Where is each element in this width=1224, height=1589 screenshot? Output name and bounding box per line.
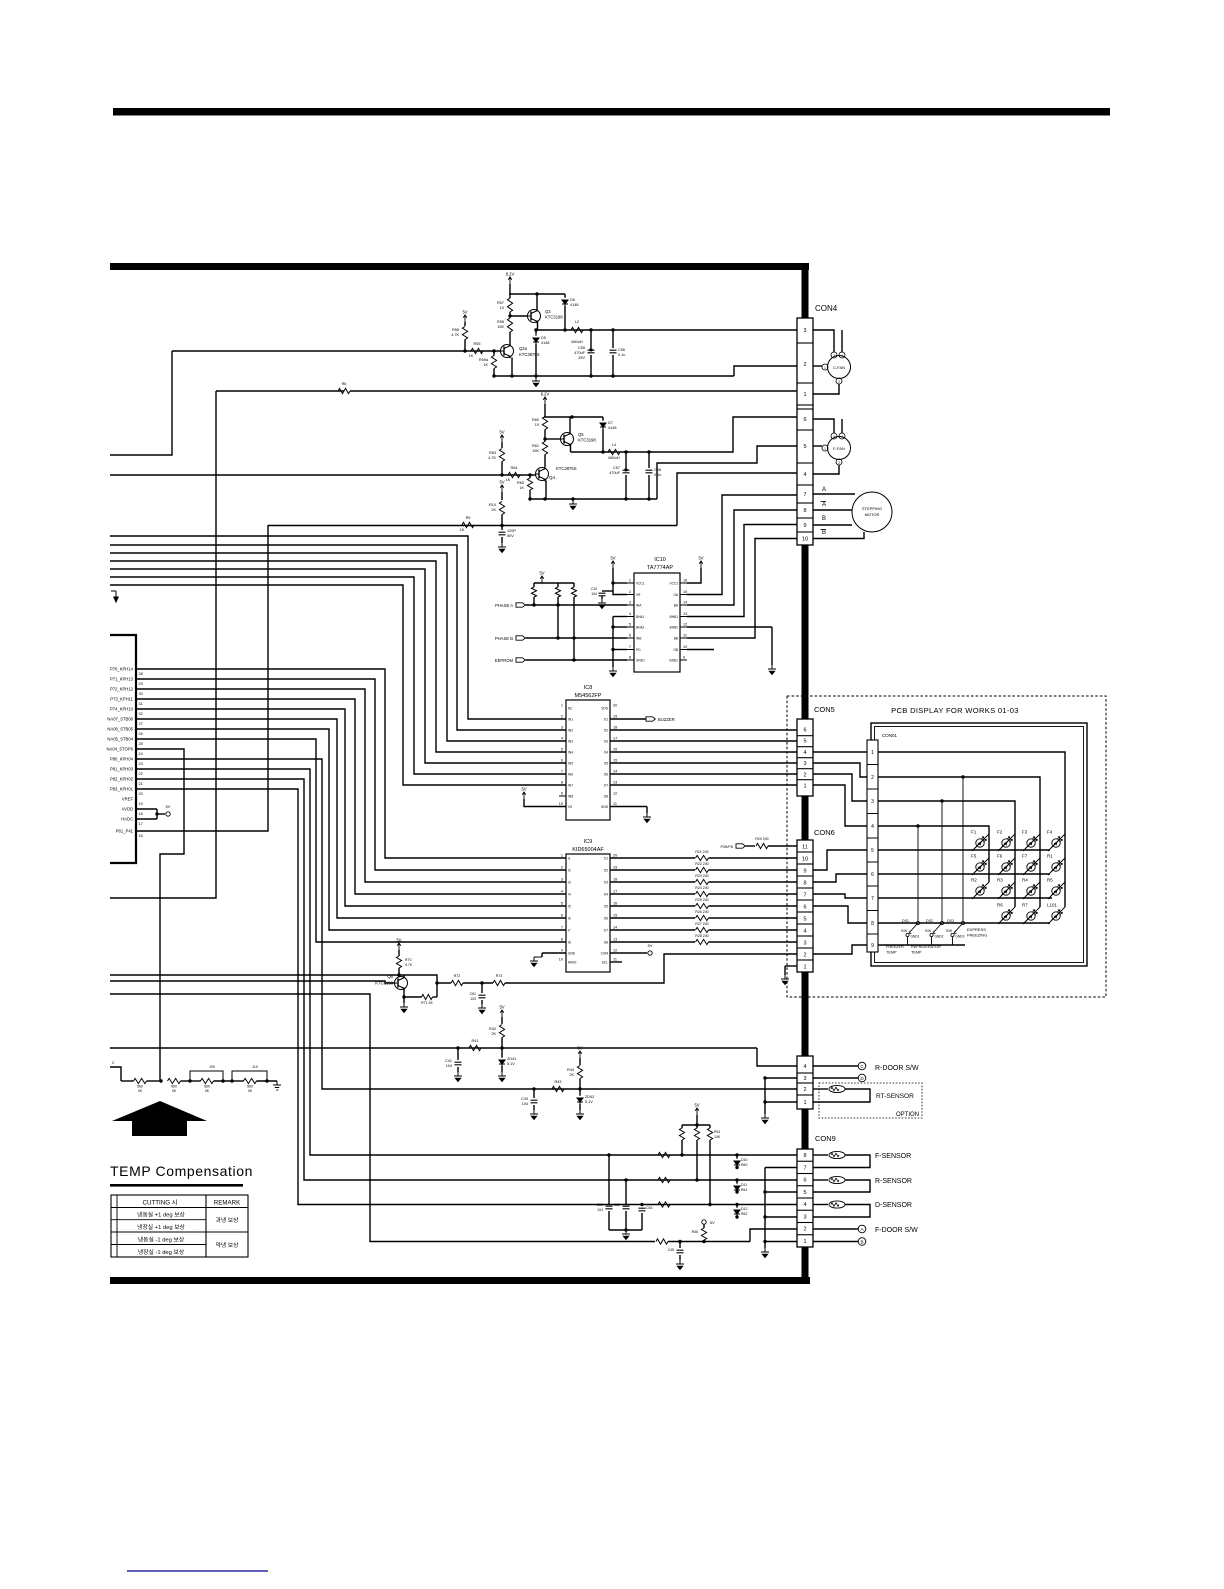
svg-text:O7: O7 [604,929,608,933]
power 5V IC10 right [699,561,703,568]
svg-text:C61: C61 [470,992,476,996]
resistor R71 [404,996,422,998]
resistor R43 [552,1086,564,1091]
svg-text:4: 4 [841,354,843,358]
svg-text:IN2: IN2 [568,729,573,733]
wire rail to CON4 pin6 [658,417,797,452]
svg-text:23: 23 [139,762,143,766]
wire MCU P81_P41 up to enable line [136,525,268,831]
transistor Q2a [501,345,514,358]
svg-text:2K: 2K [491,508,496,512]
svg-text:1: 1 [629,579,631,583]
node F-DOOR S/W A [858,1225,866,1233]
svg-text:F2: F2 [997,830,1003,835]
svg-text:7: 7 [803,1165,806,1171]
wire IC10 BHB to CON4 pin9 [687,525,797,617]
svg-text:18: 18 [613,878,617,882]
svg-text:9: 9 [871,943,874,949]
svg-text:6: 6 [803,728,806,734]
svg-text:2: 2 [803,362,806,368]
svg-text:10: 10 [802,857,808,863]
svg-text:F5: F5 [971,854,977,859]
diode ZD42 [579,1089,581,1095]
svg-text:NC: NC [568,707,573,711]
svg-text:R9: R9 [466,516,471,520]
svg-text:0K: 0K [172,1089,177,1093]
svg-text:3: 3 [629,601,631,605]
wire EEPROM to IC10 pin8 [526,659,628,661]
svg-text:GND1: GND1 [911,935,920,939]
wire Q4 collector [544,466,546,469]
svg-text:CON4: CON4 [815,304,838,313]
svg-text:C43: C43 [521,1097,528,1101]
svg-text:L2: L2 [575,320,579,324]
wire 8.2V rail [544,404,546,417]
wire IC8 out6 to CON5 pin2 [610,773,797,775]
capacitor C43 [533,1089,535,1098]
svg-text:4: 4 [803,472,806,478]
svg-text:15K: 15K [532,449,539,453]
svg-text:C55: C55 [578,346,585,350]
svg-text:KTC3875S: KTC3875S [519,352,540,357]
svg-text:4: 4 [561,890,563,894]
svg-text:5: 5 [803,739,806,745]
svg-text:C41: C41 [445,1059,452,1063]
svg-text:7: 7 [803,893,806,899]
wire pin1 to B [813,1241,858,1243]
wire q2a net from x216 [216,390,344,392]
wire D-sensor bracket [813,1205,870,1218]
capacitor C58 [648,452,650,468]
wire IC9 out2 to CON6 [610,869,695,871]
svg-text:104: 104 [446,1064,452,1068]
svg-text:냉동실 -1 deg 보상: 냉동실 -1 deg 보상 [138,1236,185,1244]
svg-text:KTC3198: KTC3198 [578,438,596,443]
svg-text:11: 11 [613,802,617,806]
wire F-sensor feed resistor [658,1152,670,1157]
wire PHASE A to IC10 pin3 [526,604,628,606]
svg-text:냉장실 +1 deg 보상: 냉장실 +1 deg 보상 [137,1223,185,1231]
svg-text:4: 4 [803,750,806,756]
svg-text:P83_KPH01: P83_KPH01 [110,787,134,792]
svg-text:0.1u: 0.1u [618,353,625,357]
svg-text:14: 14 [683,601,687,605]
svg-text:103: 103 [470,997,476,1001]
svg-text:C51: C51 [597,1203,603,1207]
wire sense line to CON4 pin4 [677,473,797,526]
ground IC10 left [609,667,617,677]
svg-text:BHA2: BHA2 [636,626,645,630]
diode ZD41 [501,1048,503,1057]
svg-text:1: 1 [803,1100,806,1106]
wire CON5 pin2 to CON01 pin3 [813,774,867,801]
thermistor D-SENSOR [813,1204,828,1206]
svg-text:12: 12 [683,623,687,627]
wire 8.2V to rail [509,284,511,294]
svg-text:NA06_STB05: NA06_STB05 [107,727,133,732]
transistor Q3 [528,310,541,323]
svg-text:16: 16 [613,902,617,906]
svg-text:3: 3 [803,941,806,947]
svg-text:4: 4 [803,929,806,935]
svg-text:14: 14 [613,926,617,930]
svg-text:C56: C56 [618,348,625,352]
svg-text:12: 12 [613,792,617,796]
svg-text:16: 16 [139,834,143,838]
thermistor RT [813,1088,828,1090]
power 8.2V [508,277,512,284]
resistor R61 [542,442,547,455]
wire base input from left edge [110,981,395,983]
svg-text:AVDD: AVDD [122,807,133,812]
wire MCU P83 to D-sensor line [136,789,797,1205]
wire CON01 pin3 feed column [878,801,1015,907]
svg-text:1K: 1K [519,486,524,490]
svg-text:1K: 1K [506,478,511,482]
svg-text:NA05_STB04: NA05_STB04 [107,737,133,742]
svg-text:J09: J09 [209,1065,215,1069]
svg-text:R63: R63 [489,451,496,455]
wire CON4 pin6 to F-FAN [813,419,834,433]
ground IC9 [530,957,538,967]
resistor R60 [542,417,547,430]
wire CON01 row8 [878,922,1050,924]
svg-text:Q2a: Q2a [519,346,528,351]
wire pullup rail [696,1115,698,1125]
svg-text:과냉 보상: 과냉 보상 [216,1216,240,1224]
connector CON9 [797,1149,813,1247]
svg-text:TEMP Compensation: TEMP Compensation [110,1163,253,1179]
svg-text:5V: 5V [694,1103,699,1108]
wire ground rail to CON4 pin2 [734,366,797,376]
svg-text:냉장실 -1 deg 보상: 냉장실 -1 deg 보상 [138,1248,185,1256]
wire ground rail to CON4 pin5 [657,446,797,499]
motor STEPPING MOTOR [852,492,892,532]
svg-text:P71_KPH13: P71_KPH13 [110,677,134,682]
wire IC9 out7 to CON6 [610,929,695,931]
diode D10 [736,1155,738,1158]
svg-text:27: 27 [139,722,143,726]
svg-text:3: 3 [871,799,874,805]
ground CON9 [761,1248,769,1258]
svg-text:VCC2: VCC2 [669,582,678,586]
svg-text:8.2V: 8.2V [541,392,550,397]
svg-text:P26/P6: P26/P6 [721,845,733,849]
svg-text:R61: R61 [741,1188,747,1192]
svg-text:F4: F4 [1047,830,1053,835]
svg-text:R61: R61 [532,444,539,448]
svg-text:PHASE B: PHASE B [495,636,513,641]
wire MCU to IC9 line 7 [136,729,566,930]
svg-text:5V: 5V [499,1005,504,1010]
svg-text:5V: 5V [539,571,544,576]
capacitor C56 [612,330,614,348]
motor F-FAN [828,437,851,460]
wire R-DOOR line from left [110,1047,757,1049]
svg-text:D6: D6 [570,298,575,302]
resistor R65 [527,478,532,490]
wire Q5 collector [569,417,571,434]
node F-DOOR S/W B [858,1238,866,1246]
wire CON4 pin8 to stepping motor [813,509,852,511]
svg-text:I4: I4 [568,893,571,897]
resistor R42 pullup [500,1010,504,1017]
wire R-sensor bracket [813,1180,870,1192]
op-amp U IC9 body [566,854,610,972]
svg-text:R55: R55 [474,342,481,346]
LED F1 [972,834,989,851]
svg-text:R43: R43 [555,1080,562,1084]
svg-text:5V: 5V [166,805,171,809]
wire 5V to IC8 pin10 [524,799,566,807]
resistor chain R1 [134,1078,147,1083]
svg-text:1: 1 [803,965,806,971]
svg-text:28: 28 [139,672,143,676]
svg-text:TEMP: TEMP [886,951,897,955]
svg-text:A: A [822,502,826,508]
wire base input line [172,350,501,352]
svg-text:8: 8 [629,656,631,660]
svg-text:104: 104 [591,592,597,596]
svg-text:3: 3 [561,726,563,730]
wire F-sensor bracket [813,1155,870,1168]
wire cap ground rail [609,1229,642,1231]
svg-text:5: 5 [871,848,874,854]
svg-text:14: 14 [613,770,617,774]
resistor R6 [338,388,350,393]
svg-text:8: 8 [561,781,563,785]
top page rule [113,108,1110,116]
wire MCU to IC9 line 3 [136,689,566,882]
wire keypad bus line 4 [110,561,566,752]
svg-text:R62: R62 [741,1212,747,1216]
svg-text:B: B [860,1239,863,1244]
svg-text:IC9: IC9 [584,839,593,845]
LED F6 [998,858,1015,875]
power 5V Q6 [397,943,401,950]
svg-text:CON6: CON6 [814,828,835,837]
wire PHASE B to IC10 pin6 [526,637,628,639]
wire CON4 pin2 to C-FAN [813,365,822,367]
diode D13c [571,587,576,597]
svg-text:20: 20 [613,854,617,858]
LED F7 [1023,858,1040,875]
arrow marker [112,1101,207,1136]
diode D6 [564,294,566,297]
svg-text:1: 1 [561,854,563,858]
capacitor C57 [625,452,627,468]
wire conn pin3 to ground chain [765,1077,797,1079]
svg-text:R60: R60 [532,418,539,422]
svg-text:MOTOR: MOTOR [865,512,880,517]
svg-text:4: 4 [803,1064,806,1070]
capacitor C51 [608,1155,610,1204]
wire vertical x216 [110,391,216,898]
wire CON01 pin2 feed column [878,777,1040,907]
svg-text:7: 7 [561,770,563,774]
svg-text:R56: R56 [452,328,459,332]
svg-text:R10: R10 [489,503,496,507]
wire IC8 out3 to CON5 pin5 [610,740,797,742]
wire Q2a collector [509,344,511,347]
resistor R41 [469,1045,481,1050]
wire Q4 emitter [545,481,547,500]
svg-text:5V: 5V [462,310,467,315]
wire Q5 base [545,438,561,440]
LED R5 [1048,882,1065,899]
svg-text:2: 2 [803,1087,806,1093]
svg-text:S/W: S/W [925,929,931,933]
wire pin4 to C [813,1065,858,1067]
wire keypad bus line 6 [110,577,566,774]
wire collector input from left edge [110,974,399,976]
svg-text:17: 17 [613,737,617,741]
ground ZD42 [576,1110,584,1120]
svg-text:I1: I1 [568,857,571,861]
wire to pullup [668,1241,750,1243]
LED R3 [998,882,1015,899]
svg-text:104: 104 [522,1102,528,1106]
svg-text:CON5: CON5 [814,705,835,714]
power 5V sensor pullups [695,1108,699,1115]
wire IC9 out1 to CON6 [610,857,695,859]
svg-text:GND: GND [568,952,576,956]
svg-text:0K: 0K [205,1089,210,1093]
svg-text:C-FAN: C-FAN [833,365,845,370]
inductor L4 [608,449,620,454]
wire IC9 out4 to CON6 [610,893,695,895]
svg-text:IN7: IN7 [568,784,573,788]
svg-text:C45: C45 [668,1248,674,1252]
svg-text:NA07_STB06: NA07_STB06 [107,717,133,722]
svg-text:PCB DISPLAY FOR WORKS 01-03: PCB DISPLAY FOR WORKS 01-03 [891,706,1019,715]
svg-text:6: 6 [803,417,806,423]
wire Q5 emitter [570,445,572,453]
svg-text:560: 560 [247,1085,253,1089]
svg-text:O3: O3 [604,740,608,744]
svg-text:I6: I6 [568,917,571,921]
svg-text:2K: 2K [491,1032,496,1036]
svg-text:D12: D12 [741,1207,747,1211]
svg-text:R60: R60 [741,1163,747,1167]
svg-text:9: 9 [561,792,563,796]
wire IC8 gnd pin11 [610,806,647,808]
ground C43 [530,1110,538,1120]
svg-text:1K: 1K [460,528,465,532]
wire CON6 pin9 to CON01 pin5 [813,850,867,870]
svg-text:470uF: 470uF [609,471,620,475]
resistor R59a [491,356,496,369]
svg-text:6: 6 [629,634,631,638]
wire R57 to Q3 base [510,315,528,317]
svg-text:R27 240: R27 240 [695,922,708,926]
svg-text:5V: 5V [499,480,504,485]
svg-text:1: 1 [803,1239,806,1245]
svg-text:1: 1 [803,784,806,790]
ground arrow below bus [111,591,118,602]
svg-text:PG: PG [636,648,641,652]
diode D7 [602,417,604,420]
svg-text:4.7K: 4.7K [488,456,496,460]
diode D12 [736,1205,738,1208]
svg-text:C10: C10 [591,587,597,591]
svg-text:R41: R41 [472,1039,479,1043]
svg-text:O7: O7 [604,784,608,788]
resistor R58 [507,318,512,332]
svg-text:R25 240: R25 240 [695,898,708,902]
svg-text:8.2V: 8.2V [506,272,515,277]
svg-text:P70_KPH14: P70_KPH14 [110,667,134,672]
svg-text:GND: GND [601,805,609,809]
svg-text:560: 560 [137,1085,143,1089]
wire Q5 output rail [571,451,659,453]
wire IC10 pin12 to ground [687,626,772,628]
wire Q6 output to CON6 pin2 [505,954,797,983]
svg-text:2: 2 [803,953,806,959]
svg-text:D10: D10 [741,1158,747,1162]
power 5V IC10 left [611,561,615,568]
wire IC10 pin16 to 5V [687,568,701,583]
ground C61 [478,1004,486,1014]
LED L101 [1048,907,1065,924]
wire CON6 pin2 to CON01 pin9 [813,945,867,954]
svg-text:6: 6 [803,905,806,911]
LED R4 [1023,882,1040,899]
wire keypad bus line 5 [110,569,566,763]
wire R-sensor feed resistor [658,1177,670,1182]
svg-text:R29 240: R29 240 [755,837,768,841]
svg-text:R6: R6 [342,382,347,386]
wire CON6 pin7 to CON01 pin7 [813,894,867,898]
node BUZZER [646,717,655,721]
svg-text:ZD41: ZD41 [507,1057,516,1061]
wire IC8 out2 to CON5 pin6 [610,729,797,731]
ground C10 [598,599,606,609]
svg-text:30: 30 [139,692,143,696]
svg-text:GND2: GND2 [935,935,944,939]
svg-text:19: 19 [613,715,617,719]
svg-text:11: 11 [613,958,617,962]
svg-text:5: 5 [561,902,563,906]
svg-text:5: 5 [803,917,806,923]
resistor R46 pullup [702,1220,706,1224]
svg-text:0K: 0K [248,1089,253,1093]
svg-text:2: 2 [838,461,840,465]
svg-text:VREF: VREF [122,797,134,802]
svg-text:TA7774AP: TA7774AP [647,565,674,571]
svg-text:7: 7 [871,896,874,902]
ground door conn [761,1114,769,1124]
wire IC10 BB to CON4 pin10 [687,539,797,639]
wire R-DOOR to conn pin4 [757,1048,797,1066]
svg-text:2: 2 [561,866,563,870]
svg-text:R51: R51 [714,1130,720,1134]
svg-text:25V: 25V [578,356,585,360]
power 8.2V f-fan [543,397,547,404]
svg-text:O2: O2 [604,729,608,733]
LED F2 [998,834,1015,851]
svg-text:4148: 4148 [570,303,578,307]
wire IC9 out8 to CON6 [610,941,695,943]
svg-text:R4: R4 [1022,878,1028,883]
svg-text:R1: R1 [1047,854,1053,859]
ground Q6 [400,1003,408,1013]
svg-text:IN4: IN4 [568,751,573,755]
svg-text:CUTTING 시: CUTTING 시 [143,1200,178,1207]
resistor R64 [508,472,520,477]
svg-text:P74_KPH10: P74_KPH10 [110,707,134,712]
svg-text:FREEZER: FREEZER [886,945,904,949]
